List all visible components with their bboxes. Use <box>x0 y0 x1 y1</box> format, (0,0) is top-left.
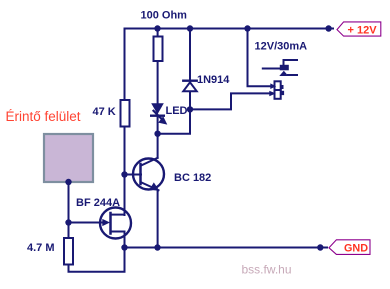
svg-text:BF 244A: BF 244A <box>76 197 120 209</box>
wire gate junction down to 4.7M <box>68 223 70 240</box>
node top of 1N914 <box>187 25 193 31</box>
transistor Q1 BC 182 <box>133 158 164 191</box>
wire relay coil feed from +12V rail <box>248 29 273 87</box>
wire left rail 47K upper lead <box>124 99 126 101</box>
node +12V terminal <box>325 25 331 31</box>
wire diode cathode to +12V rail <box>189 29 191 81</box>
node LED/collector junction <box>154 131 160 137</box>
wire BJT collector up to LED node <box>157 134 159 158</box>
svg-text:47 K: 47 K <box>93 106 116 118</box>
diode D1 1N914 <box>183 81 196 92</box>
svg-text:1N914: 1N914 <box>197 74 230 86</box>
wire LED cathode down to node <box>157 116 159 134</box>
transistor Q2 BF 244A <box>100 208 131 239</box>
node relay branch on +12V rail <box>244 25 250 31</box>
svg-text:+ 12V: + 12V <box>348 25 378 37</box>
wire relay coil feed from diode node <box>190 93 272 109</box>
touch plate <box>44 134 93 182</box>
wire top rail (+12V bus) <box>125 29 334 101</box>
resistor R2 47K <box>121 100 130 127</box>
relay K1 coil <box>269 81 284 99</box>
tag GND <box>329 240 370 255</box>
svg-text:100 Ohm: 100 Ohm <box>141 9 188 21</box>
wire resistor R1 top lead <box>157 29 159 38</box>
resistor R3 4.7M <box>64 238 73 265</box>
wire gate junction to JFET gate <box>69 222 104 224</box>
wire BJT base lead <box>125 174 142 176</box>
node GND terminal <box>317 244 323 250</box>
svg-text:BC 182: BC 182 <box>174 172 211 184</box>
wire resistor R1 bottom lead to LED <box>157 61 159 104</box>
svg-text:Érintő felület: Érintő felület <box>6 109 81 124</box>
node JFET source on GND rail <box>121 244 127 250</box>
relay K1 changeover contact <box>263 60 297 76</box>
node BJT emitter on GND rail <box>154 244 160 250</box>
wire JFET source down to GND rail <box>124 232 126 248</box>
resistor R1 100 Ohm <box>154 37 163 62</box>
node base junction <box>121 171 127 177</box>
svg-text:LED: LED <box>166 105 188 117</box>
svg-text:GND: GND <box>344 243 368 255</box>
svg-text:4.7 M: 4.7 M <box>27 242 55 254</box>
tag +12V <box>337 22 381 37</box>
node diode anode / relay coil junction <box>187 106 193 112</box>
wire GND rail <box>125 247 328 249</box>
wire plate to gate junction <box>68 182 70 223</box>
wire left rail from 47K down to JFET drain <box>124 127 126 216</box>
svg-text:bss.fw.hu: bss.fw.hu <box>242 262 292 276</box>
wire BJT emitter down to GND rail <box>157 190 159 248</box>
node gate junction <box>65 219 71 225</box>
LED D2 <box>151 103 167 124</box>
node top of 100 Ohm resistor <box>154 25 160 31</box>
svg-text:12V/30mA: 12V/30mA <box>255 40 308 52</box>
wire node to diode branch <box>158 92 190 134</box>
node plate terminal <box>65 179 71 185</box>
wire 4.7M bottom loop to GND rail <box>69 248 125 272</box>
